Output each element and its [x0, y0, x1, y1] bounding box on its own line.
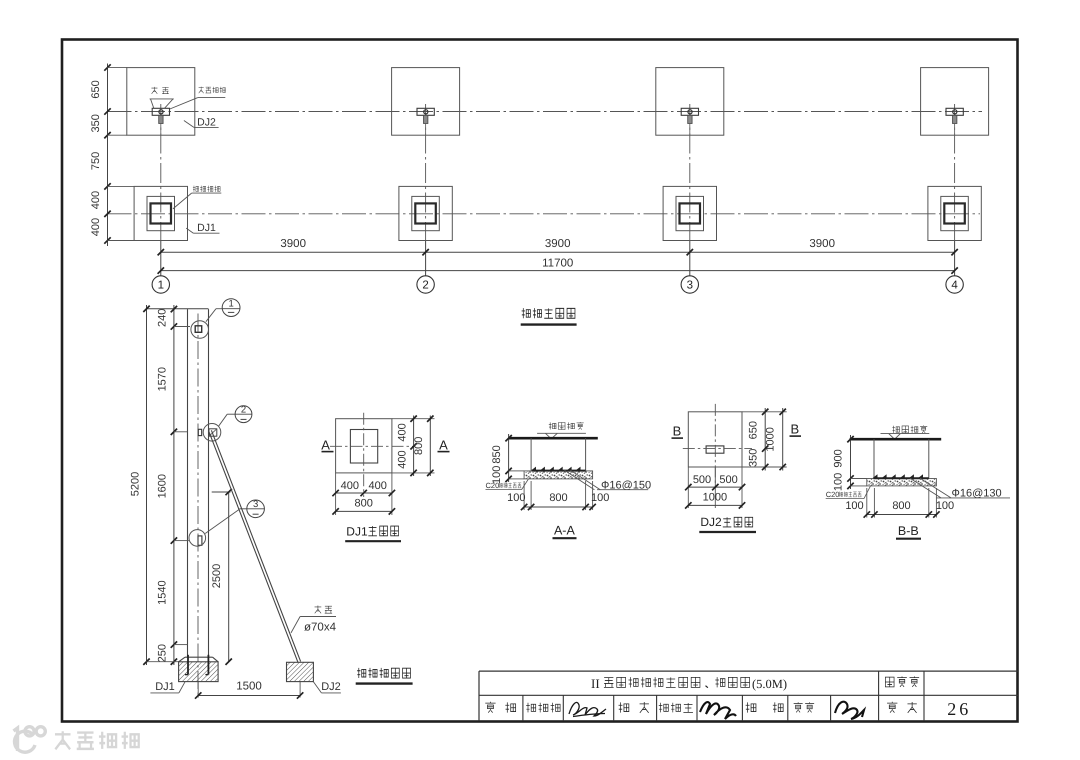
elevation column right edge: [208, 309, 210, 657]
support anchor plate axis 3: [681, 108, 698, 115]
svg-text:500: 500: [693, 474, 711, 486]
svg-text:1: 1: [228, 299, 233, 310]
svg-text:DJ2: DJ2: [700, 515, 722, 529]
svg-text:650: 650: [90, 80, 102, 98]
row2: ye ci: [887, 702, 897, 713]
foundation DJ2 elevation: [287, 662, 314, 681]
row2 signature 1: [569, 702, 606, 716]
row2 signature 3: [835, 702, 864, 719]
svg-text:100: 100: [936, 500, 954, 512]
label zhicheng (support): [151, 87, 157, 94]
svg-text:350: 350: [748, 449, 760, 467]
elevation title jiegou cemiantu: [357, 668, 366, 678]
DJ2 plan vertical centerline: [714, 404, 716, 488]
svg-text:500: 500: [719, 474, 737, 486]
svg-text:400: 400: [397, 423, 409, 441]
watermark text dashukuajing: [55, 731, 71, 749]
DJ2 foundation square axis 3: [656, 68, 724, 136]
dim line 3900 row: [161, 251, 955, 253]
A-A footing slab: [524, 471, 593, 479]
svg-text:850: 850: [491, 445, 503, 463]
callout bubble 1: [222, 299, 240, 317]
svg-text:DJ1: DJ1: [155, 681, 175, 693]
brace label zhicheng: [315, 606, 322, 614]
svg-text:100: 100: [833, 473, 845, 491]
svg-text:400: 400: [90, 191, 102, 209]
title block row1 dividers: [878, 671, 880, 721]
svg-text:DJ2: DJ2: [197, 116, 216, 128]
dim line 11700: [161, 270, 955, 272]
anchor bolt axis 1: [159, 110, 163, 114]
DJ2 plan anchor plate: [706, 446, 724, 453]
svg-text:2500: 2500: [211, 564, 223, 588]
plan left extension lines: [108, 67, 128, 69]
B-B ground level label: [892, 426, 899, 433]
svg-text:DJ2: DJ2: [321, 681, 341, 693]
DJ1 foundation nested squares axis 3: [663, 186, 716, 240]
svg-text:2: 2: [241, 404, 246, 415]
elevation chain dim line: [173, 305, 175, 665]
svg-text:400: 400: [341, 480, 359, 492]
svg-text:5200: 5200: [130, 472, 142, 496]
watermark logo icon: [14, 727, 46, 753]
svg-text:240: 240: [156, 309, 168, 327]
svg-text:650: 650: [748, 421, 760, 439]
svg-text:400: 400: [397, 450, 409, 468]
tujihao label: [885, 677, 894, 687]
svg-text:B: B: [790, 421, 799, 436]
DJ1 plan column: [350, 430, 377, 464]
B-B ground line: [850, 438, 942, 441]
A-A bottom dims: [523, 481, 525, 510]
svg-text:1000: 1000: [703, 492, 727, 504]
svg-text:250: 250: [156, 644, 168, 662]
row2: li yong: [794, 702, 803, 712]
svg-text:3900: 3900: [545, 238, 571, 250]
foundation DJ1 elevation: [185, 656, 213, 658]
plan: horizontal centerline bottom row: [108, 213, 981, 215]
anchor bolts: [187, 655, 189, 675]
plan left dimension line: [107, 64, 109, 247]
axis 1 vertical centerline: [160, 104, 162, 241]
title block row2 dividers: [522, 695, 524, 721]
DJ2 plan horizontal centerline: [683, 448, 752, 450]
A-A ground line: [509, 437, 598, 440]
B-B left dim: [850, 435, 852, 489]
svg-text:A: A: [321, 438, 330, 453]
svg-text:C20: C20: [486, 481, 500, 490]
anchor bolt axis 3: [688, 110, 692, 114]
axis bubble 3: [681, 276, 698, 293]
row2: zhang chaoyun: [659, 703, 669, 713]
svg-text:1600: 1600: [156, 474, 168, 498]
svg-text:350: 350: [90, 114, 102, 132]
anchor bolt axis 2: [424, 110, 428, 114]
svg-text:800: 800: [549, 492, 567, 504]
label gangzhu zhujiao (steel column base): [193, 186, 199, 192]
title block frame: [479, 670, 1018, 672]
elevation column centerline: [197, 314, 199, 696]
svg-text:800: 800: [355, 497, 373, 509]
svg-text:400: 400: [369, 480, 387, 492]
A-A pit walls: [530, 438, 532, 470]
A-A ground level label dimianbiaogao: [549, 422, 556, 429]
svg-text:1540: 1540: [156, 580, 168, 604]
svg-text:(5.0M): (5.0M): [752, 677, 787, 691]
support anchor plate axis 1: [152, 108, 169, 115]
row2: jiao dui: [619, 702, 629, 712]
svg-text:100: 100: [591, 492, 609, 504]
elevation 5200 dim line: [146, 305, 148, 665]
svg-text:3900: 3900: [809, 238, 835, 250]
DJ2 plan right dims: [742, 411, 787, 413]
svg-text:100: 100: [507, 492, 525, 504]
DJ1 plan bottom dims: [335, 473, 337, 515]
svg-text:3: 3: [687, 280, 693, 292]
row2 signature 2: [700, 702, 736, 719]
plan: horizontal centerline top row: [108, 111, 983, 113]
support anchor plate axis 4: [946, 108, 963, 115]
axis bubble 2: [417, 276, 434, 293]
svg-text:3: 3: [253, 499, 258, 510]
axis bubble 1: [152, 276, 169, 293]
DJ1 plan right dims: [392, 418, 435, 420]
DJ1 foundation nested squares axis 2: [399, 186, 452, 240]
B-B pit walls: [873, 439, 875, 478]
svg-text:1570: 1570: [156, 367, 168, 391]
DJ1 plan outer square: [336, 419, 392, 473]
detail 3: intermediate connection: [198, 536, 202, 545]
row2: she ji: [746, 702, 756, 712]
dim 1500: [197, 682, 199, 698]
elevation extension lines: [174, 326, 190, 328]
DJ2 foundation square axis 4: [921, 68, 989, 136]
svg-text:ø70x4: ø70x4: [304, 622, 337, 634]
svg-text:26: 26: [947, 699, 971, 719]
svg-text:900: 900: [833, 449, 845, 467]
svg-text:100: 100: [845, 500, 863, 512]
DJ1 plan vertical centerline: [363, 413, 365, 497]
svg-text:3900: 3900: [280, 238, 306, 250]
row2: shen he: [485, 702, 495, 713]
svg-text:2: 2: [422, 280, 428, 292]
plan title jiegou pingmiantu: [522, 308, 531, 318]
dim 2500 vertical: [228, 492, 230, 662]
svg-text:A-A: A-A: [554, 524, 576, 538]
axis 2 vertical centerline: [425, 104, 427, 241]
svg-text:DJ1: DJ1: [346, 524, 368, 538]
axis 3 vertical centerline: [689, 104, 691, 241]
callout bubble 2: [235, 406, 252, 423]
elevation column left edge: [187, 309, 189, 657]
svg-text:800: 800: [892, 500, 910, 512]
callout bubble 3: [247, 500, 265, 518]
axis 4 vertical centerline: [954, 104, 956, 241]
DJ1 foundation nested squares axis 1: [134, 186, 187, 240]
svg-text:C20: C20: [826, 490, 840, 499]
svg-text:A: A: [439, 438, 448, 453]
A-A left dim: [508, 434, 510, 482]
svg-text:B-B: B-B: [898, 524, 919, 538]
svg-text:1500: 1500: [236, 680, 262, 692]
svg-text:4: 4: [951, 280, 958, 292]
DJ1 foundation nested squares axis 4: [928, 186, 981, 240]
svg-text:B: B: [673, 423, 682, 438]
detail 2: brace connection: [198, 429, 201, 435]
svg-text:II: II: [591, 676, 600, 691]
svg-text:1: 1: [158, 280, 164, 292]
DJ2 foundation square axis 2: [392, 68, 460, 136]
DJ2 plan square: [688, 412, 742, 467]
anchor bolt axis 4: [953, 110, 957, 114]
B-B footing slab: [867, 479, 937, 486]
DJ2 foundation square axis 1: [127, 68, 195, 136]
svg-text:1000: 1000: [765, 427, 777, 451]
DJ2 plan bottom dims: [687, 468, 689, 509]
svg-text:400: 400: [90, 218, 102, 236]
svg-text:11700: 11700: [542, 257, 573, 269]
label zhicheng zhujiao (support column base): [199, 87, 204, 94]
svg-text:800: 800: [413, 437, 425, 455]
detail 1: column cap: [195, 326, 202, 333]
border frame: [62, 40, 1018, 722]
elevation column top cap: [147, 308, 209, 310]
DJ1 plan horizontal centerline A-A: [330, 445, 414, 447]
axis bubble 4: [946, 276, 963, 293]
svg-text:DJ1: DJ1: [197, 222, 216, 234]
svg-text:750: 750: [90, 152, 102, 170]
diagonal brace (pipe): [211, 430, 300, 661]
support anchor plate axis 2: [417, 108, 434, 115]
B-B bottom dims: [866, 488, 868, 518]
row2: tang qiming: [526, 703, 536, 713]
